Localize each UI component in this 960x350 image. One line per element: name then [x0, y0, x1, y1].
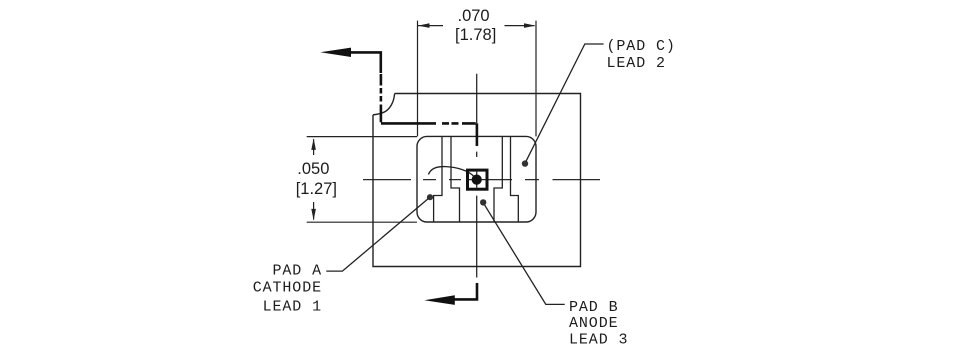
- svg-text:[1.78]: [1.78]: [455, 26, 496, 44]
- svg-text:LEAD 1: LEAD 1: [263, 298, 322, 315]
- svg-text:PAD A: PAD A: [272, 263, 322, 280]
- svg-text:LEAD 2: LEAD 2: [607, 55, 666, 72]
- svg-text:CATHODE: CATHODE: [253, 280, 322, 297]
- svg-text:[1.27]: [1.27]: [296, 180, 337, 198]
- svg-text:LEAD 3: LEAD 3: [569, 331, 628, 348]
- svg-text:ANODE: ANODE: [569, 315, 619, 332]
- svg-text:PAD B: PAD B: [569, 299, 619, 316]
- svg-text:.050: .050: [297, 160, 329, 178]
- svg-text:(PAD C): (PAD C): [607, 38, 676, 55]
- svg-text:.070: .070: [458, 7, 490, 25]
